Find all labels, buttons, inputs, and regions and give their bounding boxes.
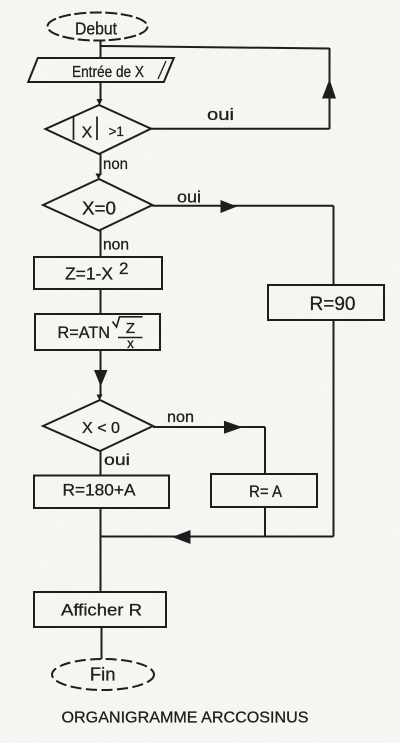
wire diamond3 oui down	[100, 451, 102, 476]
fraction bar	[118, 337, 143, 339]
wire feedback right vertical	[329, 48, 331, 129]
arrowhead big down before diamond3	[94, 370, 108, 387]
wire main down through merge	[100, 508, 102, 592]
arrowhead small diamond1 top	[97, 99, 103, 106]
arrowhead small diamond2 top	[96, 174, 102, 180]
process box R=A	[211, 474, 317, 507]
radical sign sqrt	[113, 317, 143, 327]
terminator Debut	[48, 13, 148, 41]
wire diamond1 non down	[100, 154, 102, 175]
absolute value bar left	[73, 117, 75, 141]
process box Z=1-X2	[34, 257, 162, 289]
io parallelogram Entree de X	[28, 58, 174, 82]
wire Afficher to Fin	[101, 627, 103, 659]
decision diamond X=0	[43, 179, 152, 231]
arrowhead up feedback	[322, 79, 336, 99]
arrowhead right oui2	[221, 200, 238, 213]
wire Entree to diamond1	[100, 82, 102, 101]
wire Debut to Entree	[100, 40, 102, 58]
paper noise overlay	[0, 0, 1, 1]
arrowhead small diamond3 top	[97, 395, 103, 401]
wire feedback top horizontal	[101, 46, 330, 49]
wire merge horizontal	[101, 536, 334, 538]
absolute value bar right	[96, 117, 98, 141]
wire diamond1 oui to feedback	[151, 128, 330, 130]
wire diamond2 non down	[100, 231, 102, 258]
wire RA box down to merge	[264, 507, 266, 537]
wire Z box to ATN box	[100, 289, 102, 314]
arrowhead left merge	[172, 530, 191, 544]
arrowhead right non3	[224, 421, 243, 434]
process box R=90	[268, 285, 384, 320]
wire right vertical to R90	[333, 206, 335, 285]
wire ATN box to diamond3	[100, 350, 102, 397]
wire down to RA box	[264, 427, 266, 474]
wire R90 down to merge	[333, 320, 335, 537]
wire diamond2 oui right	[152, 205, 333, 207]
process box R=ATN	[35, 314, 160, 350]
terminator Fin	[52, 659, 154, 690]
process box Afficher R	[34, 592, 166, 627]
inner slash mark in parallelogram	[158, 61, 166, 79]
decision diamond |X|>1	[45, 105, 151, 154]
process box R=180+A	[34, 476, 169, 509]
decision diamond X<0	[43, 400, 153, 451]
wire diamond3 non right	[153, 426, 265, 428]
